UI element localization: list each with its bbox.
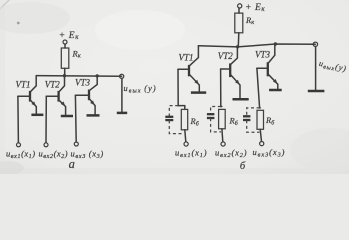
node: rail junction at RK / VT2 collector (b) xyxy=(236,45,239,48)
wire: output down lead (b) xyxy=(315,47,317,90)
power terminal +Ek (a) xyxy=(63,40,67,48)
wire: base lead VT2 (b) xyxy=(221,68,231,70)
wire: dashed top-left to capacitor C1 (b) xyxy=(169,106,178,117)
power terminal +Ek (b) xyxy=(238,4,242,13)
ground at VT1 emitter (b) xyxy=(191,91,206,94)
resistor Rb2 (b) xyxy=(219,109,226,141)
resistor RK (b) xyxy=(235,13,243,47)
wire: collector rail (a) xyxy=(36,75,122,78)
ground at output (b) xyxy=(308,90,325,93)
wire: output down lead (a) xyxy=(121,79,123,112)
wire: base lead VT1 (a) xyxy=(18,95,30,97)
capacitor C3 (b) xyxy=(243,116,250,120)
wire: input line to RC 2 (b) xyxy=(220,69,222,107)
node: rail junction at VT3 collector (a) xyxy=(96,74,99,77)
RC network 2 (b): top bar xyxy=(221,106,222,108)
transistor VT2 (b) xyxy=(230,47,240,98)
transistor VT3 (a) xyxy=(89,76,97,115)
wire: dashed capacitor C2 bottom to bar (b) xyxy=(211,118,221,132)
svg-text:VT2: VT2 xyxy=(45,80,61,90)
output terminal (b) xyxy=(313,42,317,46)
transistor VT1 (b) xyxy=(189,46,199,92)
wire: base lead VT2 (a) xyxy=(46,95,58,97)
ground at VT1 emitter (a) xyxy=(31,114,43,117)
wire: input line x3 (a) xyxy=(74,95,77,142)
svg-text:VT3: VT3 xyxy=(75,78,91,88)
capacitor C1 (b) xyxy=(165,117,173,120)
input terminal x2 (b) xyxy=(221,142,225,146)
RC network 1 (b): top bar xyxy=(178,105,185,107)
svg-text:а: а xyxy=(69,157,75,171)
input terminal x1 (a) xyxy=(17,143,21,147)
wire: collector rail (b) xyxy=(198,44,315,47)
wire: input line to RC 1 (b) xyxy=(177,69,179,105)
wire: input line x2 (a) xyxy=(45,96,47,142)
ground at VT3 emitter (a) xyxy=(87,114,100,117)
node: rail junction at RK / VT2 collector (a) xyxy=(63,74,66,77)
wire: dashed top-left to capacitor C2 (b) xyxy=(211,107,221,114)
svg-text:б: б xyxy=(240,161,246,172)
RC network 3 (b): top bar xyxy=(259,107,262,109)
wire: base lead VT3 (a) xyxy=(75,94,89,96)
wire: input line x1 (a) xyxy=(17,96,20,142)
ground at VT3 emitter (b) xyxy=(269,89,282,92)
wire: input line to RC 3 (b) xyxy=(257,68,260,108)
resistor Rb1 (b) xyxy=(181,106,187,142)
input terminal x2 (a) xyxy=(44,143,48,147)
ground at VT2 emitter (a) xyxy=(61,115,73,118)
svg-text:VT3: VT3 xyxy=(255,50,271,60)
transistor VT3 (b) xyxy=(268,44,278,89)
svg-text:VT1: VT1 xyxy=(179,53,194,63)
resistor Rb3 (b) xyxy=(257,110,264,141)
transistor VT1 (a) xyxy=(30,76,36,115)
wire: dashed top-left to capacitor C3 (b) xyxy=(247,108,260,116)
transistor VT2 (a) xyxy=(59,76,66,116)
input terminal x1 (b) xyxy=(184,142,188,146)
output terminal (a) xyxy=(120,74,124,78)
wire: dashed capacitor C1 bottom to bar (b) xyxy=(169,120,184,133)
wire: base lead VT3 (b) xyxy=(257,67,268,69)
ground at output (a) xyxy=(117,112,127,115)
input terminal x3 (a) xyxy=(74,142,78,146)
ground at VT2 emitter (b) xyxy=(233,98,249,101)
wire: dashed capacitor C3 bottom to bar (b) xyxy=(247,120,260,132)
svg-text:VT2: VT2 xyxy=(218,51,234,61)
node: rail junction at VT3 collector (b) xyxy=(274,42,277,45)
svg-text:+ Eк: + Eк xyxy=(245,3,265,13)
svg-text:+ Eк: + Eк xyxy=(59,31,79,41)
input terminal x3 (b) xyxy=(260,142,264,146)
wire: base lead VT1 (b) xyxy=(178,68,189,70)
resistor RK (a) xyxy=(61,48,69,76)
svg-text:VT1: VT1 xyxy=(16,80,31,90)
capacitor C2 (b) xyxy=(207,114,215,118)
